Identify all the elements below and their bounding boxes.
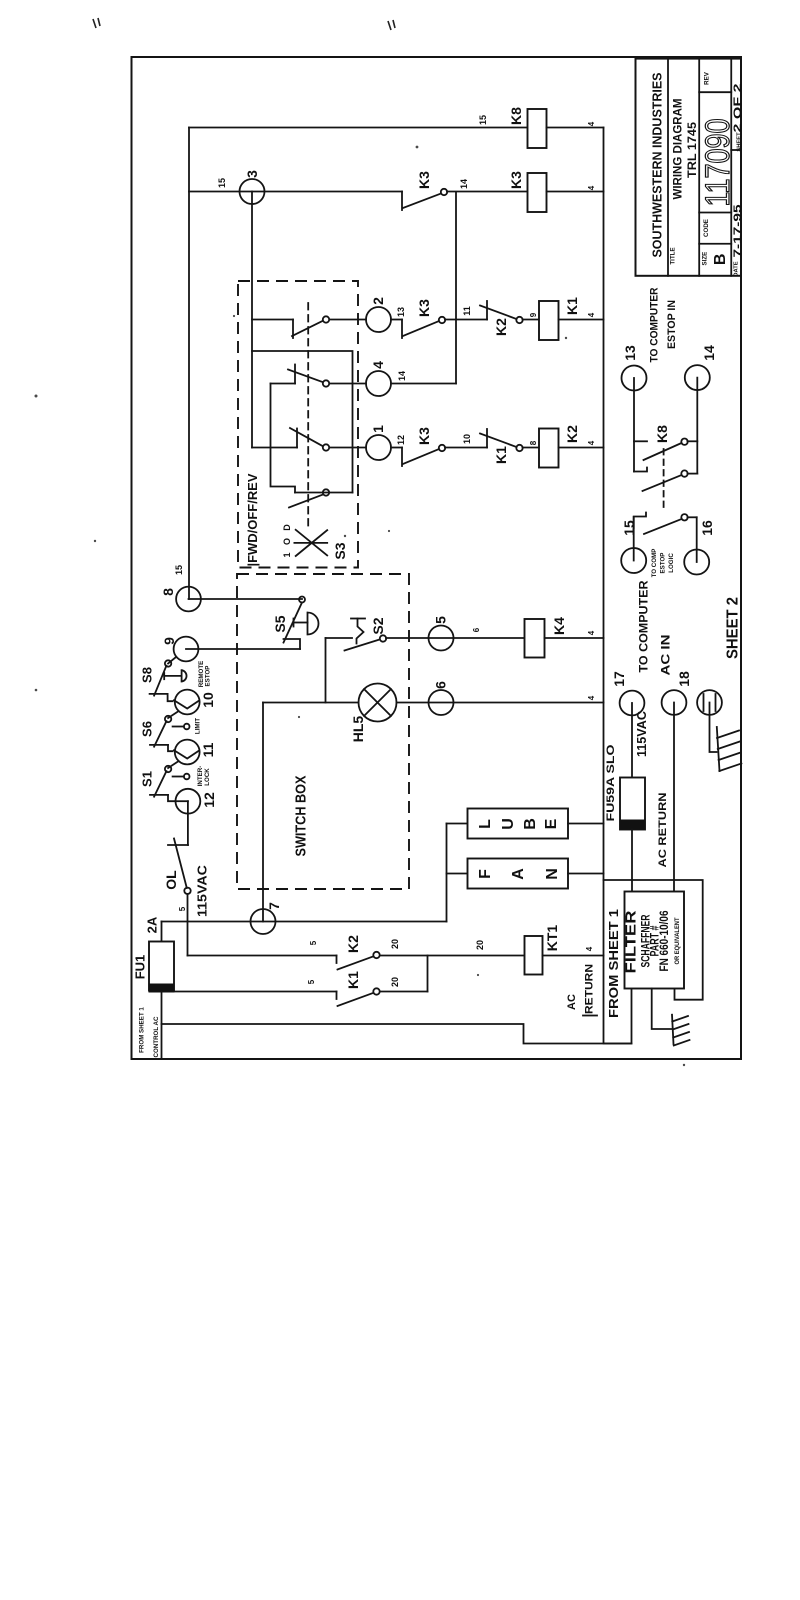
svg-text:15: 15 xyxy=(174,565,184,575)
svg-text:TO COMPUTER: TO COMPUTER xyxy=(649,287,661,362)
wire junction K1-K2 rungs xyxy=(427,956,429,992)
wire K2 pivot to KT1 xyxy=(380,955,525,957)
wire S6 to terminal 11 xyxy=(168,745,173,751)
contact K3 rung3 fixed tick xyxy=(401,192,403,211)
wire rung K8 from left rail xyxy=(189,127,528,129)
contact K3 rung2 fixed tick xyxy=(401,320,403,339)
contact S1 blade xyxy=(154,771,166,797)
wire terminal 1 to K3 contact rung1 xyxy=(391,447,402,449)
terminal 1 xyxy=(366,435,391,460)
svg-text:K1: K1 xyxy=(345,971,361,989)
wire terminal 12 down to OL xyxy=(187,801,189,845)
svg-text:TRL 1745: TRL 1745 xyxy=(685,122,699,178)
svg-text:5: 5 xyxy=(433,616,449,624)
wire filter to earth ground xyxy=(652,989,672,1030)
wire K1 pivot to K2 coil xyxy=(523,447,540,449)
contact K2 bottom blade xyxy=(338,957,374,970)
svg-text:7: 7 xyxy=(266,902,282,910)
svg-text:ESTOP IN: ESTOP IN xyxy=(666,300,678,349)
dashed enclosure SWITCH BOX xyxy=(237,574,409,889)
wire K3 coil to right rail xyxy=(547,191,604,193)
wire terminal 2 to K3 contact rung2 xyxy=(391,319,402,321)
wire K8 coil to right rail xyxy=(547,127,604,129)
title block divider col3 xyxy=(730,59,732,276)
wire filter bypass loop xyxy=(604,880,703,1000)
S6 limit fixed contact lead xyxy=(173,726,184,728)
svg-text:2 OF 2: 2 OF 2 xyxy=(732,84,744,133)
svg-text:13: 13 xyxy=(622,345,638,361)
contact S8 fixed tick xyxy=(150,693,168,695)
terminal 8 xyxy=(176,587,201,612)
svg-text:LOGIC: LOGIC xyxy=(668,553,675,573)
svg-text:INTER-: INTER- xyxy=(197,766,204,787)
wire OL to K2 rung bottom xyxy=(187,894,189,956)
wire KT1 coil to right rail xyxy=(543,955,604,957)
wire terminal 18 to filter xyxy=(673,703,675,892)
svg-text:D: D xyxy=(282,524,292,531)
contact K8-1 pivot xyxy=(681,439,687,445)
coil K4 xyxy=(525,619,545,658)
S8 actuator bar xyxy=(163,673,165,679)
svg-text:9: 9 xyxy=(161,637,177,645)
title block frame xyxy=(636,59,742,276)
box FAN xyxy=(468,859,569,889)
wire K2 bottom rung from OL xyxy=(188,955,337,957)
svg-text:S2: S2 xyxy=(370,617,386,634)
S1 interlock fixed contact circle xyxy=(184,774,190,780)
svg-text:K3: K3 xyxy=(416,427,432,445)
svg-text:FU1: FU1 xyxy=(133,955,148,980)
contact K1 bottom fixed tick xyxy=(336,992,338,1000)
scan speck top-left xyxy=(93,18,100,28)
svg-text:S5: S5 xyxy=(272,615,288,632)
svg-text:8: 8 xyxy=(529,440,538,445)
svg-text:|FWD/OFF/REV: |FWD/OFF/REV xyxy=(246,473,260,567)
contact OL fixed tick xyxy=(168,844,188,846)
contact S3-D blade xyxy=(289,495,323,508)
wire rung 4 from gang vertical to S3 contact B xyxy=(271,383,296,385)
wire K2 pivot to K1 coil xyxy=(523,319,540,321)
svg-text:K2: K2 xyxy=(564,425,580,443)
S8 actuator stem xyxy=(164,675,181,677)
wire terminal 16 riser xyxy=(696,517,698,562)
svg-text:14: 14 xyxy=(701,345,717,361)
fuse FU59A body xyxy=(620,778,645,830)
contact S3-C pivot xyxy=(323,444,329,450)
svg-text:16: 16 xyxy=(699,520,715,536)
svg-text:LIMIT: LIMIT xyxy=(195,718,202,734)
wire S3 contact D line xyxy=(295,492,353,494)
wire lube-fan riser xyxy=(446,824,448,922)
contact K8-1 fixed tick xyxy=(634,440,647,442)
wire from terminal 3 down to rung 1 xyxy=(251,192,253,448)
S6 limit fixed contact circle xyxy=(184,724,190,730)
svg-text:14: 14 xyxy=(397,371,407,381)
svg-text:N: N xyxy=(544,868,561,880)
contact S3-B blade xyxy=(288,370,323,383)
svg-text:2: 2 xyxy=(370,297,386,305)
svg-text:17: 17 xyxy=(611,671,627,687)
svg-text:REV: REV xyxy=(704,71,711,85)
contact K2 rung2 fixed tick xyxy=(486,301,488,320)
wire S2 to terminal 5 to K4 coil xyxy=(386,637,525,639)
svg-text:K8: K8 xyxy=(508,107,524,125)
wire S1 to terminal 12 xyxy=(168,795,175,801)
svg-text:FROM SHEET 1: FROM SHEET 1 xyxy=(139,1007,146,1053)
contact S8 blade xyxy=(154,666,166,696)
wire right return rail 4 (vertical) xyxy=(604,128,632,1044)
contact S2 blade xyxy=(345,640,380,651)
svg-text:SIZE: SIZE xyxy=(702,252,709,266)
svg-text:10: 10 xyxy=(462,434,472,444)
contact S3-D pivot xyxy=(323,489,329,495)
wire terminal 17 to fuse FU59A xyxy=(631,703,633,778)
svg-text:13: 13 xyxy=(396,307,406,317)
contact K8-3 blade xyxy=(644,519,682,534)
terminal 11 xyxy=(175,740,200,765)
contact S3-A blade xyxy=(292,321,323,336)
S2 actuator bar xyxy=(351,618,365,620)
svg-text:CONTROL AC: CONTROL AC xyxy=(153,1016,160,1057)
scan speck top-middle xyxy=(388,20,395,30)
svg-text:4: 4 xyxy=(587,185,596,190)
wire lamp rung left xyxy=(263,702,359,704)
S5 actuator bar xyxy=(293,619,295,627)
contact K8-1 blade xyxy=(644,443,682,460)
svg-text:12: 12 xyxy=(201,792,217,808)
svg-text:TO COMPUTER: TO COMPUTER xyxy=(636,580,650,672)
wire to FAN box xyxy=(447,873,468,875)
svg-text:S6: S6 xyxy=(140,721,155,737)
svg-text:TO COMP: TO COMP xyxy=(651,549,658,578)
svg-text:F: F xyxy=(477,869,494,879)
wire to LUBE box xyxy=(447,823,468,825)
contact K3 rung2 pivot xyxy=(439,317,445,323)
wire 5 horizontal bus through terminal 7 xyxy=(162,921,447,923)
wire terminal 7 up to lamp rung xyxy=(262,703,264,922)
svg-text:1: 1 xyxy=(370,425,386,433)
svg-text:OR EQUIVALENT: OR EQUIVALENT xyxy=(674,917,681,964)
svg-text:WIRING DIAGRAM: WIRING DIAGRAM xyxy=(670,99,684,200)
contact S5 blade xyxy=(284,603,303,643)
terminal shield xyxy=(697,690,722,715)
svg-text:10: 10 xyxy=(200,692,216,708)
svg-text:CODE: CODE xyxy=(703,219,710,237)
contact S1 pivot xyxy=(165,766,171,772)
terminal 3 xyxy=(240,179,265,204)
wire S5 blade to rung 9 xyxy=(284,639,301,649)
svg-text:9: 9 xyxy=(529,312,538,317)
wire K8-1 pivot to terminal 14 wire xyxy=(688,440,698,442)
wire lamp to terminal 6 to right rail xyxy=(397,702,604,704)
wire S3 gang left vertical xyxy=(271,384,296,493)
svg-text:L: L xyxy=(477,819,494,829)
K8 gang dashed link xyxy=(663,449,665,510)
svg-text:RETURN: RETURN xyxy=(584,964,596,1014)
wire S3-C to terminal 1 xyxy=(330,447,367,449)
svg-text:B: B xyxy=(712,254,729,266)
svg-text:A: A xyxy=(510,868,527,880)
svg-text:B: B xyxy=(522,818,539,830)
terminal 5 xyxy=(429,626,454,651)
wire S3-B to terminal 4 xyxy=(330,383,367,385)
wire K3 contact to K3 coil xyxy=(447,191,528,193)
fuse FU59A element band xyxy=(620,820,645,829)
S5 estop mushroom head xyxy=(308,613,319,635)
svg-text:AC RETURN: AC RETURN xyxy=(657,792,669,867)
svg-text:ESTOP: ESTOP xyxy=(205,666,212,687)
svg-text:6: 6 xyxy=(472,627,481,632)
svg-text:15: 15 xyxy=(217,178,227,188)
contact K8-3 pivot xyxy=(681,514,687,520)
svg-text:4: 4 xyxy=(587,312,596,317)
S8 estop mushroom head xyxy=(182,670,187,681)
terminal 14 xyxy=(685,365,710,390)
box FILTER xyxy=(625,892,685,989)
svg-text:S3: S3 xyxy=(332,542,348,559)
title block divider REV xyxy=(699,91,731,93)
wire rung 3 from left rail to K3 contact xyxy=(189,191,402,193)
contact OL pivot xyxy=(184,888,190,894)
svg-text:4: 4 xyxy=(587,630,596,635)
svg-text:6: 6 xyxy=(433,681,449,689)
wire K3 to K2 contact rung2 xyxy=(445,319,487,321)
svg-text:4: 4 xyxy=(587,695,596,700)
wire K4 coil to right rail xyxy=(545,637,604,639)
svg-text:11: 11 xyxy=(462,306,472,316)
title block divider code top xyxy=(699,212,731,214)
wire terminal 10 to S6 xyxy=(168,712,178,719)
terminal 2 xyxy=(366,307,391,332)
svg-text:5: 5 xyxy=(307,979,316,984)
terminal 13 xyxy=(622,366,647,391)
S2 actuator spring xyxy=(357,619,364,644)
contact K3 rung3 pivot xyxy=(441,189,447,195)
terminal 18 xyxy=(662,690,687,715)
svg-text:K3: K3 xyxy=(416,171,432,189)
wire terminal 11 to S1 xyxy=(168,762,178,769)
svg-text:12: 12 xyxy=(396,435,406,445)
lamp HL5 xyxy=(359,684,397,722)
svg-text:115VAC: 115VAC xyxy=(634,710,649,757)
title block divider sheet-date xyxy=(731,149,741,151)
svg-text:2A: 2A xyxy=(145,916,160,933)
svg-text:AC IN: AC IN xyxy=(658,635,672,676)
contact S3-C blade xyxy=(290,428,323,446)
wire fuse FU59A to filter xyxy=(631,830,633,892)
drawing border frame xyxy=(132,57,742,1059)
svg-text:20: 20 xyxy=(390,977,400,987)
wire shield terminal to chassis ground xyxy=(710,703,717,753)
svg-text:SOUTHWESTERN INDUSTRIES: SOUTHWESTERN INDUSTRIES xyxy=(650,72,665,257)
svg-text:K8: K8 xyxy=(654,425,670,443)
coil K1 xyxy=(539,301,559,340)
dashed enclosure FWD/OFF/REV selector box xyxy=(238,281,358,568)
wire left rail 15 (vertical from top rung down to terminal 8) xyxy=(188,128,190,600)
svg-text:18: 18 xyxy=(676,671,692,687)
wire to S2 xyxy=(326,637,353,639)
contact K1 rung1 fixed tick xyxy=(486,429,488,448)
wire 115VAC bus to fuse FU1 xyxy=(161,922,163,942)
title block divider size xyxy=(699,243,731,245)
contact K3 rung2 blade xyxy=(403,321,439,336)
svg-text:4: 4 xyxy=(370,361,386,369)
contact S6 pivot xyxy=(165,716,171,722)
wire K1 pivot to junction xyxy=(380,991,428,993)
svg-text:K1: K1 xyxy=(564,297,580,315)
terminal 17 xyxy=(620,691,645,716)
contact S3-B pivot xyxy=(323,380,329,386)
terminal 9 xyxy=(174,637,199,662)
svg-text:4: 4 xyxy=(585,946,594,951)
contact K1 bottom pivot xyxy=(373,988,379,994)
wire terminal 14 to K8 pivots xyxy=(696,378,698,474)
lamp HL5 cross xyxy=(364,689,391,716)
contact K8 fixed hook xyxy=(634,468,647,472)
wire into terminal 12 xyxy=(175,800,188,802)
svg-text:K3: K3 xyxy=(508,171,524,189)
contact K2 bottom pivot xyxy=(373,952,379,958)
svg-text:K3: K3 xyxy=(416,299,432,317)
contact K8-3 fixed hook xyxy=(634,513,646,529)
svg-text:SHEET 2: SHEET 2 xyxy=(724,597,741,659)
contact S5 pivot xyxy=(299,597,305,603)
svg-text:KT1: KT1 xyxy=(544,925,560,952)
contact OL blade xyxy=(174,839,187,889)
svg-text:S1: S1 xyxy=(140,771,155,787)
S3 mechanical gang dashed link xyxy=(307,303,309,530)
svg-text:4: 4 xyxy=(587,440,596,445)
terminal 12 xyxy=(176,789,201,814)
S1 interlock fixed contact lead xyxy=(173,776,184,778)
contact S6 blade xyxy=(154,721,166,747)
svg-text:AC: AC xyxy=(566,994,578,1010)
contact K8-2 pivot xyxy=(681,470,687,476)
wire terminal 4 to wire14 vertical xyxy=(391,383,456,385)
svg-text:K4: K4 xyxy=(551,617,567,635)
contact S1 fixed tick xyxy=(150,794,168,796)
terminal 6 xyxy=(429,690,454,715)
wire CONTROL AC from sheet 1 xyxy=(162,1024,632,1044)
wire S3 common top jog xyxy=(252,351,353,493)
svg-text:SWITCH BOX: SWITCH BOX xyxy=(294,775,310,856)
wire terminal 9 to S5 xyxy=(186,648,300,650)
svg-text:S8: S8 xyxy=(140,667,155,683)
wire S5-S2 junction vertical xyxy=(325,638,327,703)
wire FAN to right rail xyxy=(568,873,604,875)
wire terminal 13 to K8 contacts xyxy=(633,378,635,472)
chassis ground right bar xyxy=(717,727,720,771)
S3 selector position cross xyxy=(294,530,327,556)
terminal 15 xyxy=(621,548,646,573)
wire rung 1 to S3 contact C xyxy=(252,447,297,449)
contact S3-A pivot xyxy=(323,316,329,322)
svg-text:LOCK: LOCK xyxy=(204,768,211,786)
svg-text:FROM SHEET 1: FROM SHEET 1 xyxy=(606,909,621,1018)
wire LUBE to right rail xyxy=(568,823,604,825)
wire K1 bottom rung from fuse xyxy=(175,991,337,993)
terminal 16 xyxy=(684,550,709,575)
svg-text:DATE: DATE xyxy=(734,261,740,276)
svg-text:E: E xyxy=(543,818,560,829)
svg-text:115VAC: 115VAC xyxy=(195,864,210,917)
contact S8 pivot xyxy=(165,660,171,666)
contact K1 rung1 blade xyxy=(480,434,517,448)
coil K3 xyxy=(528,173,547,212)
svg-text:K2: K2 xyxy=(493,318,509,336)
wire K8-3 pivot to terminal 16 xyxy=(688,516,697,518)
svg-text:1: 1 xyxy=(282,552,292,557)
svg-text:8: 8 xyxy=(160,588,176,596)
svg-text:3: 3 xyxy=(244,170,260,178)
svg-text:FN 660-10/06: FN 660-10/06 xyxy=(659,911,671,972)
svg-text:U: U xyxy=(500,818,517,830)
box LUBE xyxy=(468,809,569,839)
contact K2 bottom fixed tick xyxy=(336,956,338,964)
svg-text:TITLE: TITLE xyxy=(670,247,677,264)
wire S3-A to terminal 2 xyxy=(330,319,367,321)
svg-text:14: 14 xyxy=(459,179,469,189)
contact K8-2 blade xyxy=(643,475,682,491)
wire terminal 9 to S8 xyxy=(168,657,176,664)
contact K3 rung1 fixed tick xyxy=(401,448,403,467)
wire K8-2 pivot to terminal 14 wire xyxy=(688,473,698,475)
svg-text:K2: K2 xyxy=(345,935,361,953)
coil KT1 xyxy=(525,936,543,975)
svg-text:K1: K1 xyxy=(493,446,509,464)
contact K3 rung1 pivot xyxy=(439,445,445,451)
wire K2 coil to right rail xyxy=(559,447,604,449)
wire S8 to terminal 10 xyxy=(168,694,173,701)
svg-text:4: 4 xyxy=(587,121,596,126)
label RETURN underline xyxy=(583,1015,597,1017)
svg-text:ESTOP: ESTOP xyxy=(660,553,667,574)
wire chevron into terminal 10 xyxy=(174,700,199,708)
svg-text:HL5: HL5 xyxy=(350,716,366,743)
contact S3-C fixed tick xyxy=(296,429,298,448)
svg-text:11: 11 xyxy=(200,742,216,757)
chassis ground right hatches xyxy=(717,731,741,772)
contact K2 rung2 blade xyxy=(480,306,517,320)
scan specks xyxy=(35,123,686,1066)
wire terminal 8 to S5 xyxy=(189,598,303,600)
svg-text:5: 5 xyxy=(309,940,318,945)
contact K1 bottom blade xyxy=(338,993,374,1006)
contact K3 rung3 blade xyxy=(403,194,441,209)
wire rung 2 from vertical to S3 contact A xyxy=(252,319,293,321)
earth ground bar xyxy=(672,1015,674,1044)
svg-text:FILTER: FILTER xyxy=(622,910,639,973)
coil K8 xyxy=(528,109,547,148)
svg-text:FU59A SLO: FU59A SLO xyxy=(605,744,617,822)
S5 actuator stem xyxy=(294,622,308,624)
svg-text:O: O xyxy=(282,538,292,545)
title block divider col2 xyxy=(698,59,700,276)
svg-text:SHEET: SHEET xyxy=(737,132,743,152)
title block divider col1 xyxy=(667,59,669,276)
svg-text:5: 5 xyxy=(178,906,187,911)
earth ground hatches xyxy=(672,1016,689,1046)
contact S3-A fixed tick xyxy=(292,320,294,339)
wire K3 to K1 contact rung1 xyxy=(445,447,487,449)
wire chevron into terminal 11 xyxy=(174,750,199,758)
svg-text:OL: OL xyxy=(163,870,179,890)
contact K1 rung1 pivot xyxy=(516,445,522,451)
contact K2 rung2 pivot xyxy=(516,317,522,323)
contact S2 pivot xyxy=(380,635,386,641)
wire K1 coil to right rail xyxy=(559,319,604,321)
coil K2 xyxy=(539,429,559,468)
